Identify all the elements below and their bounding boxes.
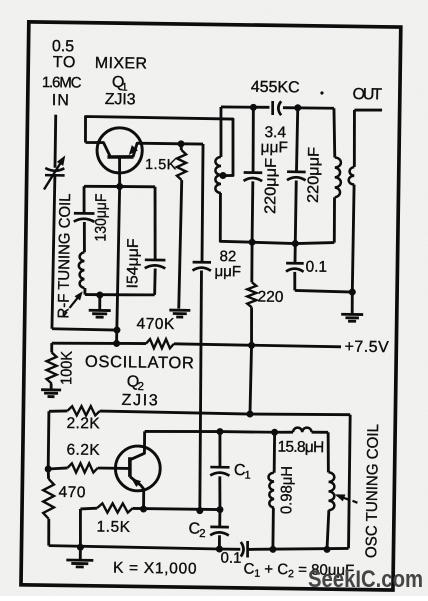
svg-text:μμF: μμF (260, 139, 288, 156)
svg-text:2.2K: 2.2K (66, 415, 100, 432)
svg-text:TO: TO (53, 54, 76, 71)
svg-text:6.2K: 6.2K (66, 441, 100, 458)
svg-text:1: 1 (121, 81, 127, 93)
svg-text:MIXER: MIXER (95, 55, 148, 73)
svg-text:0.5: 0.5 (52, 38, 75, 55)
svg-text:1.5K: 1.5K (145, 157, 177, 173)
svg-text:15.8μH: 15.8μH (277, 439, 324, 457)
svg-text:0.1: 0.1 (305, 258, 327, 275)
svg-text:470K: 470K (136, 316, 175, 334)
svg-text:1: 1 (244, 470, 250, 482)
svg-text:220μμF: 220μμF (262, 158, 280, 214)
svg-text:OSCILLATOR: OSCILLATOR (85, 353, 195, 373)
svg-text:455KC: 455KC (251, 79, 301, 97)
svg-text:2: 2 (199, 528, 206, 540)
svg-text:K = X1,000: K = X1,000 (113, 560, 197, 578)
svg-text:μμF: μμF (214, 263, 241, 280)
svg-text:470: 470 (58, 484, 86, 501)
svg-text:+7.5V: +7.5V (344, 339, 389, 357)
svg-text:IN: IN (52, 92, 70, 109)
svg-text:OSC TUNING COIL: OSC TUNING COIL (363, 424, 382, 559)
svg-text:R-F TUNING COIL: R-F TUNING COIL (55, 193, 74, 319)
svg-text:OUT: OUT (352, 86, 383, 103)
svg-text:130μμF: 130μμF (92, 193, 110, 241)
svg-text:100K: 100K (58, 350, 75, 385)
svg-text:SeekIC.com: SeekIC.com (308, 566, 423, 593)
svg-text:1.6MC: 1.6MC (42, 74, 82, 92)
svg-text:ZJI3: ZJI3 (121, 392, 158, 410)
svg-text:220: 220 (257, 289, 283, 306)
svg-text:0.98μH: 0.98μH (278, 466, 296, 514)
svg-text:I54μμF: I54μμF (124, 238, 142, 288)
svg-text:0.1: 0.1 (220, 550, 241, 567)
svg-text:220μμF: 220μμF (305, 147, 323, 203)
svg-text:1.5K: 1.5K (96, 518, 130, 535)
svg-text:ZJI3: ZJI3 (105, 91, 136, 108)
